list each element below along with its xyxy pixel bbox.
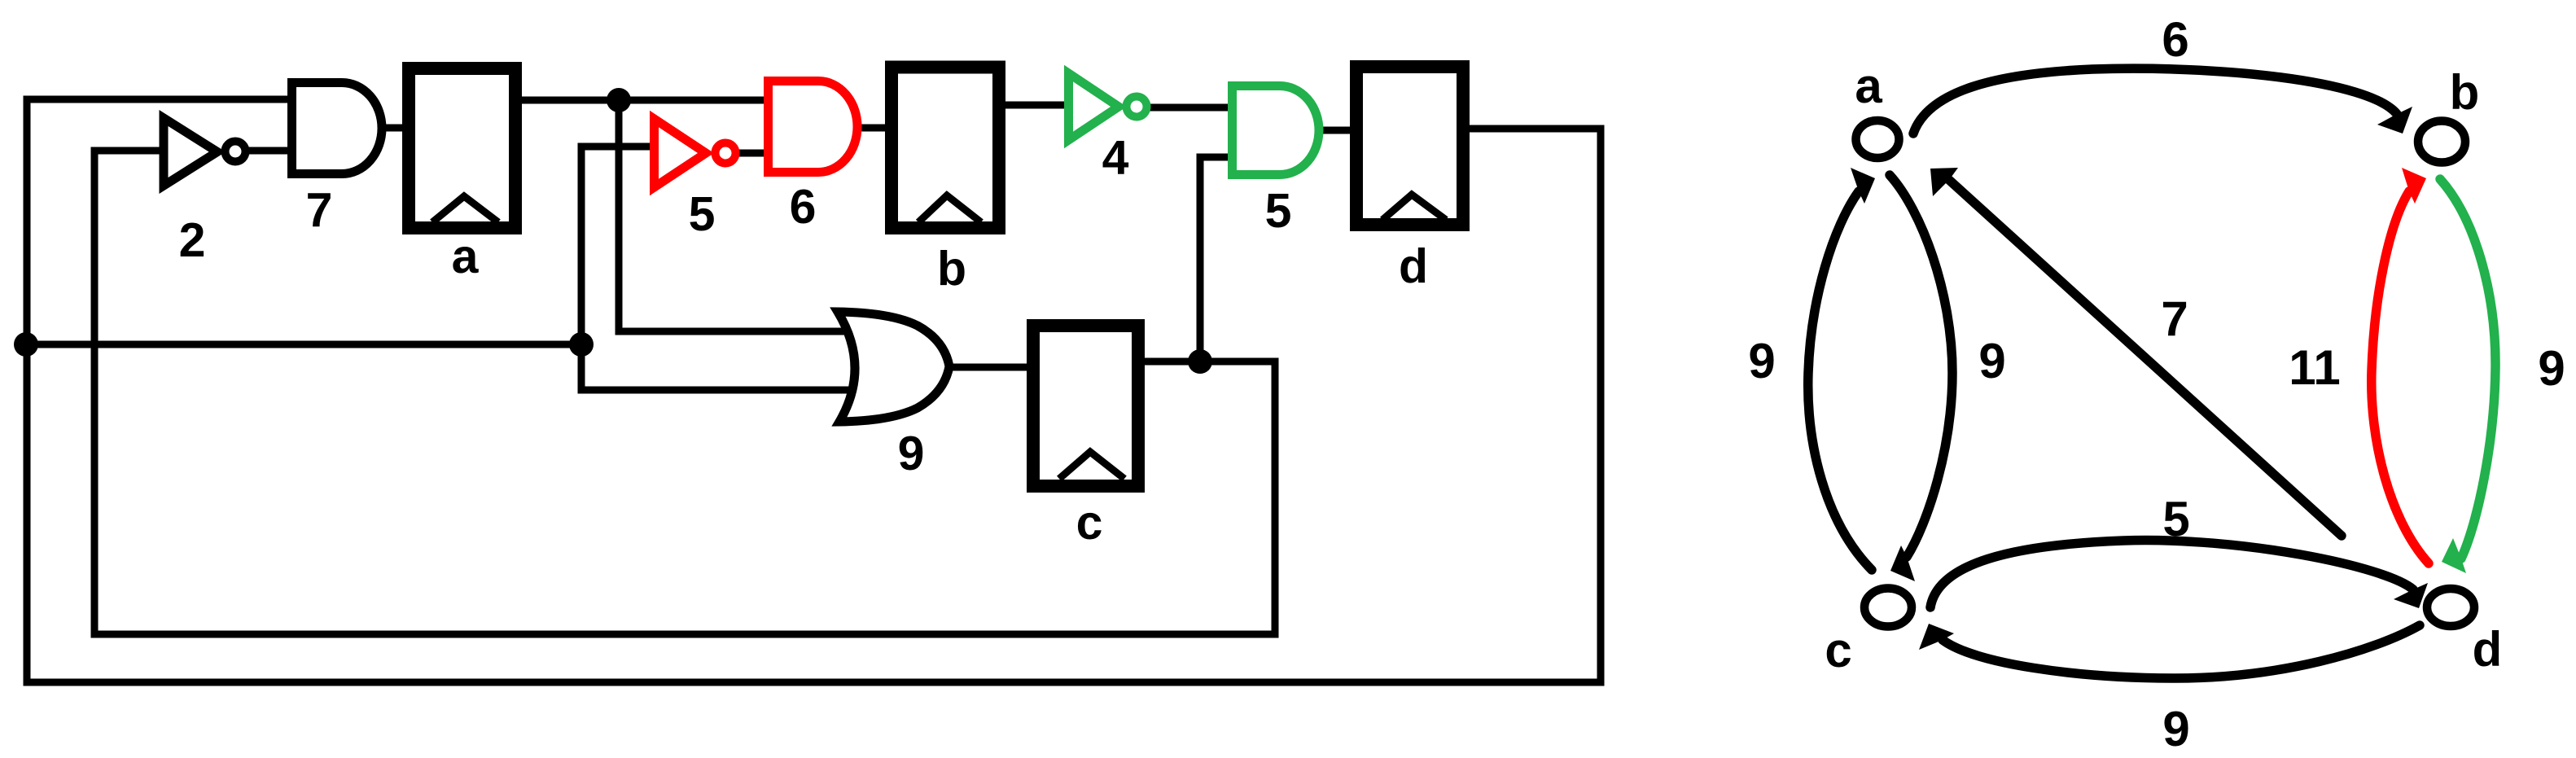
svg-text:9: 9 bbox=[1978, 334, 2005, 388]
edge b->d weight 9 (green) bbox=[2440, 179, 2495, 559]
svg-text:c: c bbox=[1825, 623, 1851, 677]
edge a->c weight 9 bbox=[1890, 175, 1952, 557]
svg-text:9: 9 bbox=[1748, 334, 1775, 388]
junction node: mid vertical at y=423 bbox=[569, 332, 594, 357]
edge c->a weight 9 bbox=[1808, 191, 1872, 570]
svg-text:9: 9 bbox=[898, 427, 925, 480]
wire: red inverter output to red AND lower input bbox=[738, 150, 767, 157]
red AND gate 6 bbox=[769, 81, 858, 173]
svg-text:7: 7 bbox=[306, 183, 333, 237]
svg-text:a: a bbox=[1855, 59, 1882, 113]
green AND gate 5 bbox=[1233, 86, 1319, 175]
node d bbox=[2427, 589, 2474, 626]
wire: FF c output around bottom to inverter 2 input bbox=[94, 151, 1275, 634]
edge c->d weight 5 bbox=[1930, 541, 2413, 607]
wire: inverter 2 output to AND 7 lower input bbox=[244, 147, 291, 155]
wire: left rail to mid vertical at y=423 bbox=[26, 341, 581, 348]
flip-flop a bbox=[409, 68, 515, 228]
svg-text:b: b bbox=[937, 242, 966, 296]
wire: FF a output to red AND top input bbox=[513, 97, 767, 104]
node a bbox=[1856, 120, 1899, 158]
wire: feedback net FF d output around bottom to AND7 top input bbox=[27, 99, 1601, 682]
svg-text:5: 5 bbox=[2162, 492, 2189, 546]
edge d->c weight 9 bbox=[1943, 625, 2420, 678]
flip-flop b bbox=[892, 68, 999, 229]
edge d->b weight 11 (red) bbox=[2372, 191, 2429, 563]
svg-text:2: 2 bbox=[179, 213, 206, 267]
node c bbox=[1864, 589, 1912, 627]
wire: branch FF c net up to green AND lower input bbox=[1200, 157, 1231, 361]
wire: green inverter output to green AND top input bbox=[1146, 104, 1231, 112]
AND gate 7 bbox=[292, 83, 383, 174]
svg-text:7: 7 bbox=[2161, 291, 2188, 346]
wire: mid vertical feeding red inverter input and OR lower input bbox=[581, 147, 851, 390]
svg-text:a: a bbox=[452, 230, 480, 283]
wire: red AND output to FF b bbox=[860, 125, 890, 132]
flip-flop c bbox=[1033, 326, 1138, 486]
wire: FF a output branch down to OR top input bbox=[619, 100, 851, 331]
wire: FF b output to green inverter 4 input bbox=[1001, 102, 1064, 109]
svg-text:9: 9 bbox=[2162, 702, 2189, 756]
junction node: FF c output branch bbox=[1188, 349, 1212, 374]
wire: green AND output to FF d bbox=[1322, 127, 1355, 134]
flip-flop d bbox=[1356, 67, 1463, 225]
svg-text:11: 11 bbox=[2289, 340, 2340, 395]
svg-text:6: 6 bbox=[790, 180, 817, 234]
svg-text:6: 6 bbox=[2162, 12, 2188, 67]
svg-text:d: d bbox=[2473, 622, 2503, 677]
green inverter 4 bbox=[1069, 73, 1119, 140]
junction node: left rail at y=423 bbox=[14, 332, 38, 357]
svg-text:d: d bbox=[1399, 239, 1428, 293]
red inverter 5 bbox=[655, 119, 707, 187]
inverter 2 bbox=[164, 118, 217, 186]
OR gate 9 bbox=[838, 312, 949, 422]
svg-text:4: 4 bbox=[1102, 131, 1129, 185]
svg-text:c: c bbox=[1076, 496, 1103, 550]
wire: AND 7 output to FF a bbox=[385, 125, 410, 132]
edge d->a weight 7 bbox=[1949, 180, 2342, 536]
svg-text:b: b bbox=[2450, 65, 2480, 120]
svg-text:5: 5 bbox=[1265, 184, 1292, 238]
wire: OR output to FF c bbox=[948, 364, 1030, 371]
svg-text:5: 5 bbox=[689, 187, 716, 241]
edge a->b weight 6 bbox=[1913, 68, 2397, 134]
junction node: FF a output branch bbox=[607, 88, 631, 112]
svg-text:9: 9 bbox=[2538, 341, 2565, 396]
node b bbox=[2418, 121, 2465, 163]
